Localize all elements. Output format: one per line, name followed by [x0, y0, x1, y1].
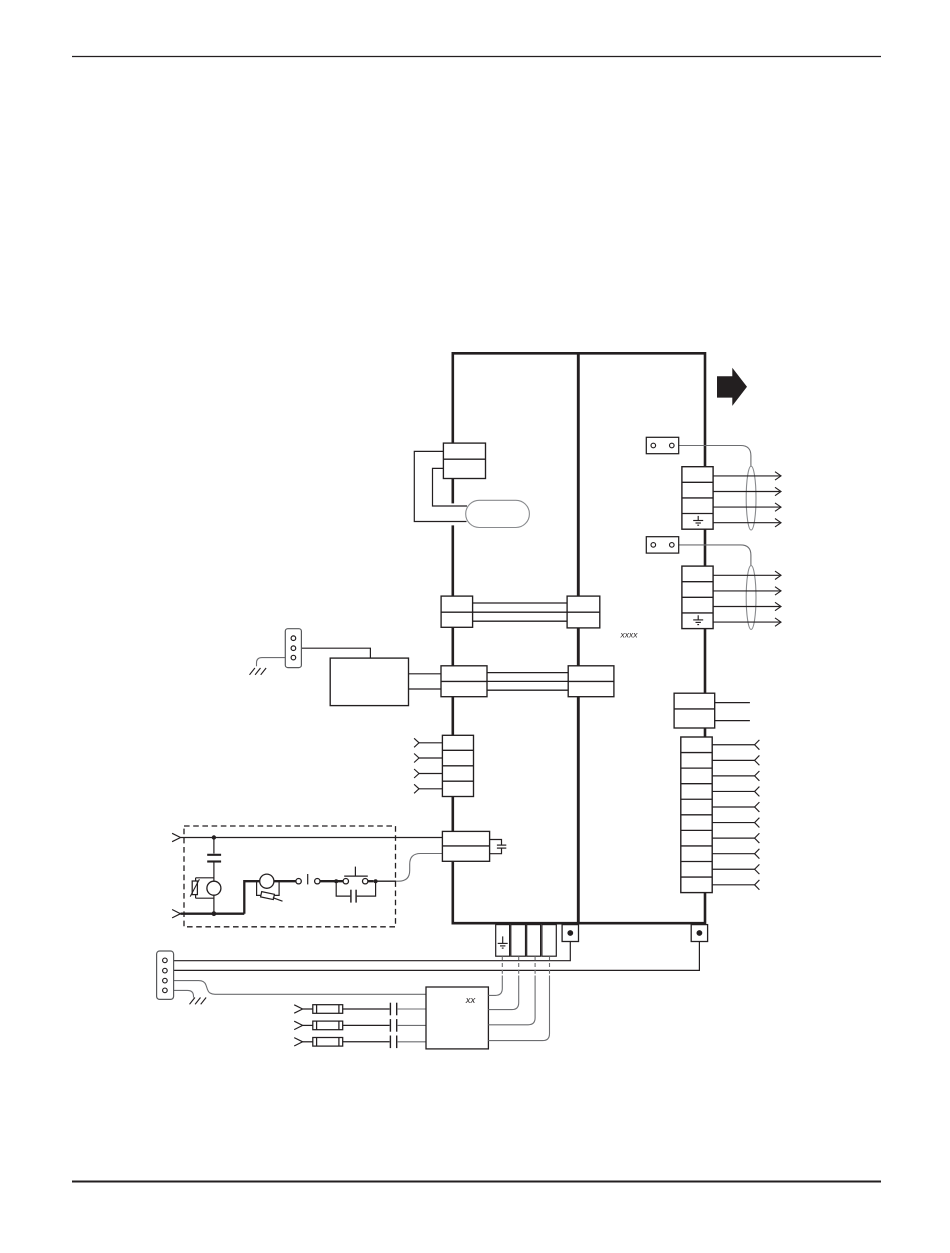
svg-text:xxxx: xxxx [620, 630, 639, 640]
svg-text:xx: xx [465, 995, 477, 1006]
